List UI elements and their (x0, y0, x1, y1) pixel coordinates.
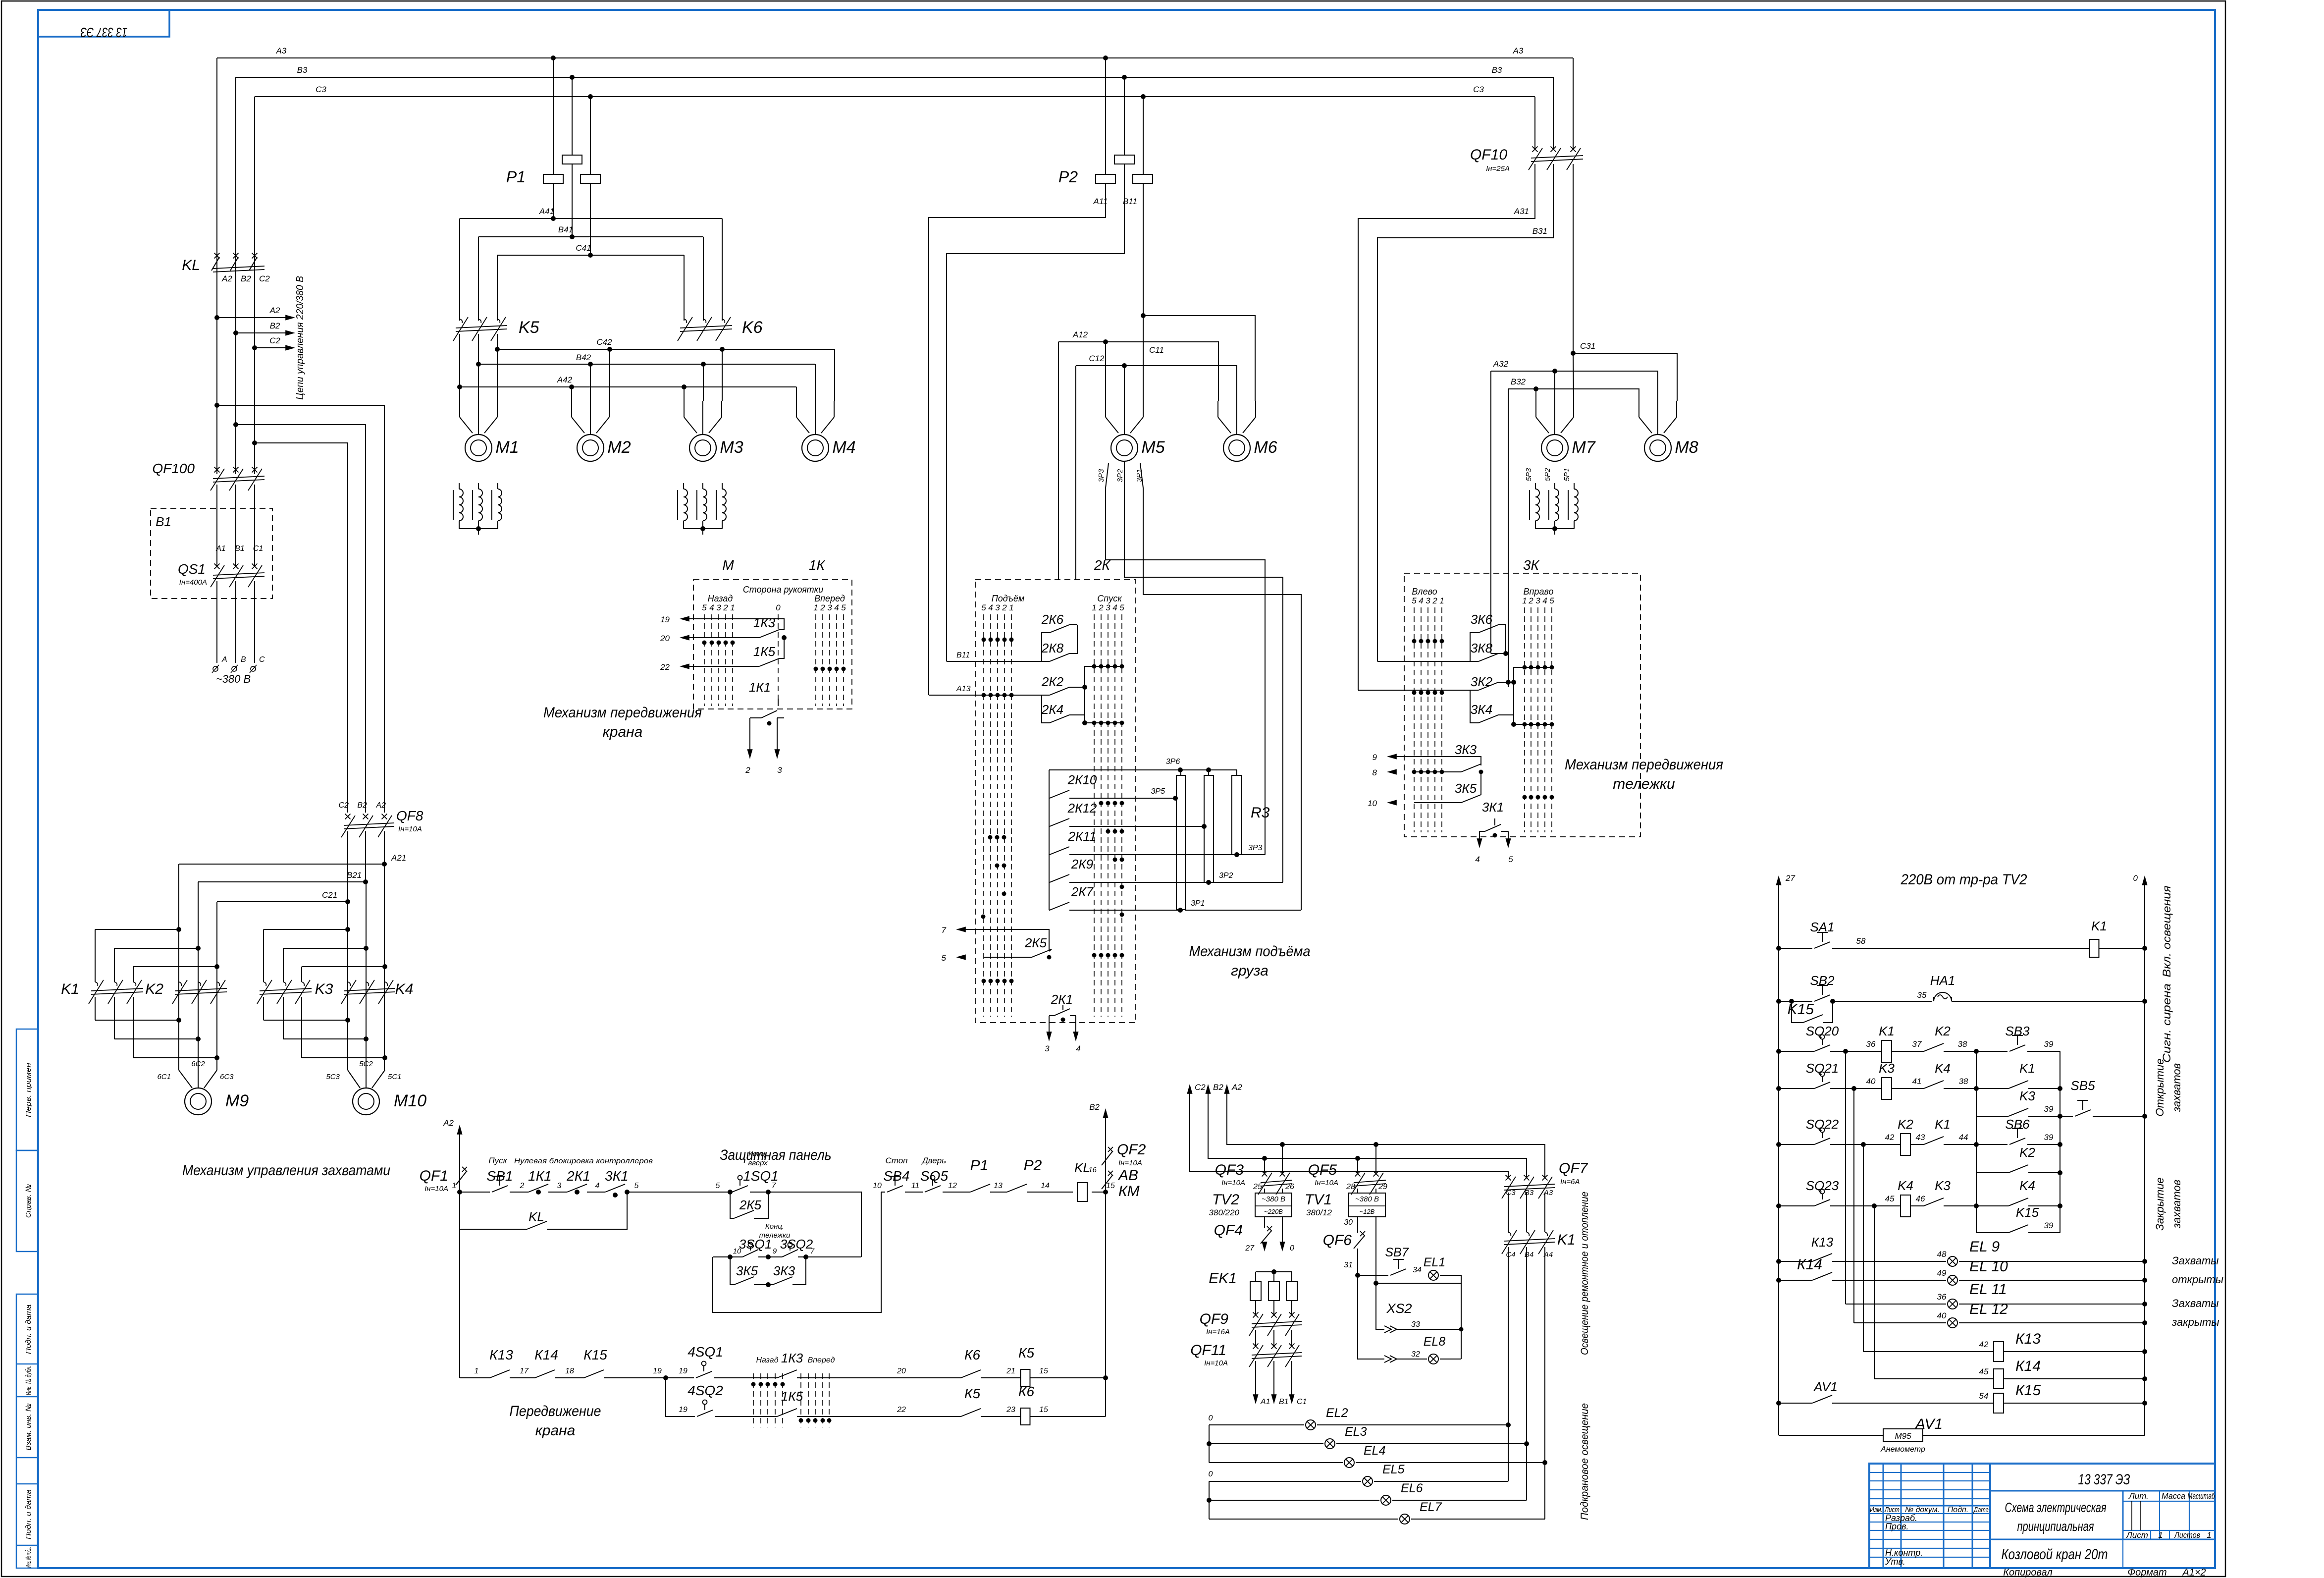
wire K3 top links (264, 929, 348, 930)
svg-text:A: A (221, 655, 227, 664)
svg-text:~380 В: ~380 В (216, 673, 251, 685)
svg-text:K4: K4 (395, 981, 414, 997)
lamp row EL4 (1209, 1462, 1343, 1463)
svg-text:Козловой кран 20т: Козловой кран 20т (2002, 1546, 2108, 1563)
motor M7 (1541, 435, 1568, 461)
controller M contact columns Назад (704, 614, 705, 706)
lamp row EL3 (1209, 1443, 1323, 1444)
svg-text:C3: C3 (1506, 1189, 1516, 1197)
svg-text:5: 5 (981, 603, 986, 612)
wire C31 down to motors (1573, 164, 1574, 353)
svg-text:2К4: 2К4 (1041, 702, 1063, 717)
wire B11 to 2K box (947, 164, 1124, 661)
parallel box verticals (1976, 1051, 1977, 1233)
svg-text:1: 1 (1009, 603, 1013, 612)
svg-text:5Р1: 5Р1 (1563, 468, 1571, 482)
contacts 2К10 2К12 2К11 2К9 2К7 rotor steps (1049, 770, 1050, 910)
svg-text:23: 23 (1006, 1406, 1015, 1414)
svg-text:открыты: открыты (2172, 1273, 2223, 1286)
wire TV1 right secondary (1376, 1217, 1461, 1283)
svg-text:1: 1 (1092, 603, 1096, 612)
svg-text:B1: B1 (1279, 1398, 1289, 1406)
contactor K1 (95, 982, 98, 986)
svg-text:EL4: EL4 (1364, 1444, 1385, 1458)
coil KL (1077, 1183, 1087, 1201)
svg-text:39: 39 (2044, 1104, 2054, 1114)
svg-text:A12: A12 (1072, 330, 1088, 339)
svg-text:3К5: 3К5 (736, 1263, 758, 1278)
wire K2 pole C vertical (216, 902, 217, 1070)
pushbutton SB6 (2017, 1129, 2018, 1138)
svg-text:3Р3: 3Р3 (1097, 469, 1106, 482)
wire A21 row (384, 831, 385, 864)
svg-text:A3: A3 (1513, 46, 1524, 55)
title block columns (1883, 1464, 1884, 1568)
rotor resistor bank under M3 (683, 483, 684, 489)
svg-text:~220В: ~220В (1264, 1208, 1283, 1215)
svg-text:2: 2 (745, 765, 750, 775)
svg-text:B: B (241, 655, 246, 664)
svg-text:17: 17 (520, 1367, 529, 1375)
svg-text:3К2: 3К2 (1471, 674, 1493, 689)
svg-text:АВ: АВ (1117, 1167, 1138, 1184)
wire K3 bottom links (263, 997, 264, 1020)
svg-text:5С3: 5С3 (326, 1073, 340, 1081)
svg-text:SB4: SB4 (884, 1168, 910, 1184)
svg-text:K1: K1 (1557, 1232, 1576, 1248)
svg-text:М6: М6 (1254, 438, 1277, 457)
svg-text:EL 11: EL 11 (1969, 1281, 2007, 1298)
svg-text:3К3: 3К3 (773, 1263, 795, 1278)
svg-text:Подп. и дата: Подп. и дата (24, 1305, 33, 1354)
svg-text:15: 15 (1039, 1406, 1048, 1414)
svg-text:38: 38 (1959, 1077, 1968, 1086)
top-left stamp box (38, 10, 169, 37)
svg-text:2: 2 (820, 603, 825, 612)
transformer TV2 (1264, 1189, 1265, 1193)
svg-text:28: 28 (1346, 1183, 1355, 1191)
svg-text:K15: K15 (2016, 1205, 2039, 1220)
svg-text:13 337 ЭЗ: 13 337 ЭЗ (81, 25, 128, 40)
svg-text:3: 3 (777, 765, 782, 775)
svg-text:B32: B32 (1511, 377, 1526, 386)
bus 0 right rail (2142, 875, 2147, 885)
svg-text:AV1: AV1 (1914, 1416, 1943, 1432)
svg-text:QF2: QF2 (1117, 1142, 1146, 1158)
svg-text:2К1: 2К1 (566, 1168, 590, 1184)
svg-text:AV1: AV1 (1813, 1379, 1838, 1394)
limit switch SQ5 Дверь (931, 1176, 935, 1180)
svg-text:B42: B42 (576, 353, 591, 362)
svg-text:K2: K2 (1898, 1117, 1913, 1132)
contactor K2 (179, 982, 181, 986)
wire A31 loop to 3K box (1358, 164, 1535, 690)
svg-text:SQ22: SQ22 (1806, 1117, 1839, 1132)
wire phase B down from bus B3 (235, 77, 236, 474)
svg-text:XS2: XS2 (1386, 1301, 1412, 1316)
limit switch 4SQ1 (666, 1377, 694, 1378)
svg-text:30: 30 (1344, 1218, 1353, 1227)
svg-text:Iн=400А: Iн=400А (179, 578, 207, 587)
dropper wires to coils (1845, 1051, 1846, 1304)
svg-text:1: 1 (2207, 1530, 2211, 1540)
wire C11 row to M6 (1141, 313, 1146, 318)
svg-text:SB7: SB7 (1385, 1246, 1409, 1259)
svg-text:Пров.: Пров. (1885, 1522, 1908, 1531)
svg-text:A2: A2 (443, 1118, 454, 1128)
svg-text:Масштаб: Масштаб (2188, 1491, 2216, 1501)
wire A12 row (1058, 342, 1218, 401)
svg-text:К14: К14 (534, 1347, 558, 1362)
svg-text:9: 9 (1373, 753, 1377, 762)
contactor K4 (348, 982, 350, 986)
contact К13 (490, 1370, 510, 1378)
contact 1К3 (684, 637, 759, 638)
svg-text:44: 44 (1959, 1133, 1968, 1142)
svg-text:QS1: QS1 (178, 561, 206, 577)
svg-text:Назад: Назад (756, 1356, 778, 1364)
controller 3K columns Влево (1414, 607, 1415, 832)
svg-text:2К12: 2К12 (1067, 801, 1097, 816)
motor M9 (185, 1088, 211, 1115)
svg-text:3Р6: 3Р6 (1166, 758, 1180, 766)
resistor R3 column 3 (1232, 775, 1241, 855)
title block frame (1869, 1464, 2215, 1568)
svg-text:20: 20 (897, 1367, 906, 1375)
svg-text:K3: K3 (1879, 1061, 1895, 1076)
svg-text:4SQ2: 4SQ2 (687, 1383, 723, 1398)
svg-text:10: 10 (1368, 799, 1377, 808)
svg-text:Захваты: Захваты (2172, 1254, 2219, 1267)
wire 3K outputs up (1490, 371, 1491, 653)
controller M contact columns Вперед (815, 614, 816, 706)
wire M3 leads from K6 (684, 387, 685, 401)
svg-text:36: 36 (1937, 1292, 1947, 1302)
svg-text:~12В: ~12В (1360, 1208, 1375, 1215)
svg-text:P2: P2 (1024, 1157, 1042, 1174)
wire K4 pole A vertical (347, 902, 348, 1070)
svg-text:A2: A2 (375, 801, 386, 810)
svg-text:Справ. №: Справ. № (24, 1184, 33, 1218)
svg-text:К13: К13 (489, 1347, 513, 1362)
wire feeders down to 2K box (1058, 342, 1059, 580)
wire C2 run (1190, 1090, 1508, 1177)
svg-text:22: 22 (897, 1406, 906, 1414)
contact K15 parallel row (1976, 1232, 2008, 1233)
svg-text:SA1: SA1 (1810, 920, 1834, 934)
svg-text:2К11: 2К11 (1068, 829, 1097, 844)
svg-text:3К8: 3К8 (1471, 641, 1493, 655)
svg-text:B2: B2 (1089, 1102, 1100, 1112)
svg-text:33: 33 (1411, 1320, 1420, 1329)
svg-text:2К2: 2К2 (1041, 674, 1064, 689)
svg-text:Механизм управления захватами: Механизм управления захватами (182, 1162, 390, 1179)
motor M10 (353, 1088, 379, 1115)
svg-text:8: 8 (1373, 768, 1377, 777)
contact K1 parallel (1976, 1088, 2008, 1089)
svg-text:10: 10 (733, 1247, 741, 1255)
svg-text:B2: B2 (357, 801, 367, 810)
svg-text:36: 36 (1866, 1039, 1876, 1049)
wire M2 leads (571, 387, 572, 401)
svg-text:Передвижение: Передвижение (510, 1403, 601, 1419)
svg-text:13: 13 (994, 1182, 1003, 1190)
svg-text:4: 4 (1076, 1044, 1080, 1053)
thermal relay P2 lead A11 (1103, 55, 1108, 60)
svg-text:A31: A31 (1514, 207, 1529, 216)
svg-text:Механизм передвижения: Механизм передвижения (1565, 757, 1723, 773)
svg-text:3: 3 (1045, 1044, 1050, 1053)
wire C41 row (497, 255, 684, 256)
rung SQ20 (1776, 1049, 1781, 1054)
svg-text:Копировал: Копировал (2003, 1567, 2052, 1578)
wire B2 run (1208, 1090, 1527, 1177)
wire A2 run (1227, 1090, 1545, 1177)
svg-text:Взам. инв. №: Взам. инв. № (24, 1404, 33, 1451)
svg-text:Формат: Формат (2127, 1567, 2166, 1578)
svg-text:K6: K6 (742, 318, 763, 337)
svg-text:3: 3 (827, 603, 832, 612)
svg-text:K3: K3 (315, 981, 333, 997)
svg-text:4: 4 (1542, 596, 1547, 605)
svg-text:груза: груза (1231, 963, 1268, 979)
svg-text:KL: KL (1074, 1160, 1090, 1175)
svg-text:2: 2 (1098, 603, 1104, 612)
svg-text:6С3: 6С3 (220, 1073, 234, 1081)
svg-text:9: 9 (773, 1247, 777, 1255)
svg-text:Лист: Лист (2126, 1530, 2148, 1540)
bypass contacts 3К5 3К3 (730, 1257, 734, 1285)
svg-text:3К4: 3К4 (1471, 702, 1492, 717)
svg-text:21: 21 (1006, 1367, 1015, 1375)
svg-text:Iн=10А: Iн=10А (1204, 1359, 1228, 1367)
svg-text:35: 35 (1917, 990, 1927, 1000)
wire bus A3 (217, 57, 1573, 58)
svg-text:0: 0 (776, 603, 781, 612)
svg-text:C2: C2 (259, 274, 270, 283)
svg-text:QF9: QF9 (1200, 1311, 1229, 1327)
wire 2К9 row to 3Р2 (1069, 882, 1209, 883)
svg-text:K3: K3 (1935, 1178, 1951, 1193)
svg-text:EK1: EK1 (1209, 1270, 1237, 1287)
svg-text:M10: M10 (394, 1091, 426, 1110)
svg-text:Захваты: Захваты (2172, 1297, 2219, 1309)
contact K2 parallel row (1976, 1172, 2008, 1173)
svg-text:QF100: QF100 (152, 461, 195, 476)
svg-text:4: 4 (709, 603, 714, 612)
svg-text:18: 18 (565, 1367, 574, 1375)
wire B42 row (478, 334, 479, 364)
svg-text:26: 26 (1285, 1183, 1294, 1191)
svg-text:1: 1 (813, 603, 818, 612)
svg-text:К5: К5 (1018, 1345, 1035, 1360)
svg-text:A42: A42 (557, 375, 573, 384)
svg-text:M8: M8 (1675, 438, 1698, 457)
svg-text:Конц.: Конц. (765, 1222, 784, 1231)
svg-text:5Р2: 5Р2 (1543, 468, 1552, 481)
svg-text:B1: B1 (235, 544, 245, 553)
svg-text:крана: крана (535, 1422, 576, 1439)
breaker QF3 (1280, 1142, 1285, 1147)
contact P1 (970, 1184, 990, 1192)
node dots Подъём rows (982, 638, 986, 642)
wire A41 row (460, 218, 722, 219)
arrows A1 B1 C1 (1255, 1361, 1256, 1397)
svg-text:2К10: 2К10 (1067, 772, 1097, 787)
svg-text:K1: K1 (2019, 1061, 2035, 1076)
svg-text:43: 43 (1916, 1133, 1925, 1142)
rung SB2 - HA1 siren (1776, 999, 1781, 1004)
svg-text:К13: К13 (1811, 1235, 1834, 1250)
wire 19 arrow (704, 618, 762, 619)
wire branch A2 to QF8 column (214, 403, 219, 408)
svg-text:2К5: 2К5 (739, 1197, 762, 1212)
rung coil K13 (1863, 1351, 1994, 1352)
svg-text:Изм.: Изм. (1870, 1506, 1883, 1514)
pushbutton SB5 (2060, 1116, 2073, 1117)
svg-text:5Р3: 5Р3 (1525, 468, 1533, 481)
svg-text:11: 11 (911, 1182, 920, 1190)
svg-text:Iн=25А: Iн=25А (1486, 164, 1510, 173)
supply terminals ~380V (213, 666, 218, 671)
svg-text:К6: К6 (1018, 1384, 1035, 1399)
svg-text:R3: R3 (1251, 805, 1270, 821)
svg-text:Утв.: Утв. (1885, 1557, 1905, 1567)
svg-text:Сигн. сирена: Сигн. сирена (2161, 983, 2173, 1063)
svg-text:15: 15 (1039, 1367, 1048, 1375)
svg-text:29: 29 (1378, 1183, 1387, 1191)
svg-text:3Р2: 3Р2 (1116, 469, 1124, 482)
motor M1 (465, 435, 492, 461)
breaker QF4 (1264, 1217, 1265, 1228)
svg-text:Iн=10А: Iн=10А (1315, 1179, 1338, 1187)
svg-text:Лит.: Лит. (2128, 1491, 2149, 1501)
wire C12 row (1076, 366, 1237, 401)
svg-text:5: 5 (942, 953, 947, 963)
wire C4 down (1508, 1247, 1509, 1481)
svg-text:58: 58 (1856, 936, 1866, 946)
svg-text:380/220: 380/220 (1209, 1208, 1240, 1217)
wire B32 row (1508, 389, 1639, 401)
svg-text:A41: A41 (539, 207, 554, 216)
svg-text:C31: C31 (1580, 341, 1595, 351)
svg-text:Нулевая блокировка контроллеро: Нулевая блокировка контроллеров (514, 1157, 653, 1165)
svg-text:5: 5 (702, 603, 707, 612)
svg-text:5: 5 (841, 603, 846, 612)
svg-text:12: 12 (948, 1182, 957, 1190)
svg-text:B11: B11 (1123, 197, 1137, 206)
svg-text:3: 3 (1106, 603, 1110, 612)
rung SA1 - K1 (1776, 946, 1781, 951)
svg-text:5: 5 (1412, 596, 1417, 605)
svg-text:5: 5 (1119, 603, 1124, 612)
svg-text:45: 45 (1885, 1194, 1895, 1203)
svg-text:Защитная панель: Защитная панель (720, 1147, 832, 1163)
svg-text:32: 32 (1411, 1350, 1420, 1359)
rung EL12 (1854, 1322, 1946, 1323)
svg-text:2: 2 (520, 1182, 525, 1190)
svg-text:C2: C2 (1195, 1083, 1206, 1092)
svg-text:3Р2: 3Р2 (1219, 871, 1233, 880)
svg-text:1: 1 (452, 1182, 457, 1190)
svg-text:EL7: EL7 (1420, 1500, 1442, 1514)
svg-text:39: 39 (2044, 1133, 2054, 1142)
svg-text:20: 20 (660, 634, 670, 643)
svg-text:2К9: 2К9 (1071, 857, 1093, 871)
svg-text:1: 1 (730, 603, 735, 612)
svg-text:принципиальная: принципиальная (2017, 1519, 2094, 1534)
svg-text:4: 4 (1112, 603, 1117, 612)
arrows 27 and 0 to control (1264, 1244, 1265, 1245)
wire A11 to 2K box (929, 183, 1106, 695)
rotor resistor bank under M7 (1535, 483, 1536, 489)
svg-text:3К3: 3К3 (1455, 742, 1477, 757)
svg-text:Влево: Влево (1412, 587, 1437, 597)
svg-text:48: 48 (1937, 1250, 1947, 1259)
svg-text:Iн=10А: Iн=10А (1118, 1159, 1142, 1167)
svg-text:A2: A2 (1231, 1083, 1242, 1092)
coil К5 (1021, 1369, 1030, 1386)
wire K6 pole verticals (722, 218, 723, 321)
svg-text:A2: A2 (221, 274, 232, 283)
svg-text:37: 37 (1912, 1039, 1922, 1049)
svg-text:QF3: QF3 (1215, 1162, 1244, 1178)
svg-text:M2: M2 (607, 438, 631, 457)
breaker QF9 (1253, 1312, 1259, 1318)
contact К15 (584, 1370, 604, 1378)
svg-text:4: 4 (988, 603, 993, 612)
wire phase C down from bus C3 (254, 97, 255, 474)
svg-text:Стоп: Стоп (885, 1156, 908, 1165)
coil K2 (1901, 1134, 1910, 1155)
thermal relay P1 lead A (551, 55, 556, 60)
wire M1 leads from K5 (459, 387, 460, 401)
wire 3Р5 row (1069, 798, 1175, 799)
svg-text:3К1: 3К1 (605, 1168, 629, 1184)
dashed box B1 (151, 508, 272, 599)
feeder arrows C2 B2 A2 lighting (1187, 1084, 1192, 1094)
anemometer AV1 row (1779, 1435, 1883, 1436)
svg-text:Пуск: Пуск (488, 1156, 507, 1165)
svg-text:4: 4 (1419, 596, 1423, 605)
svg-text:C2: C2 (269, 336, 280, 345)
svg-text:A1×2: A1×2 (2182, 1567, 2206, 1578)
wire 2К7 row to 3Р1 (1069, 910, 1180, 911)
svg-text:Iн=10А: Iн=10А (424, 1185, 448, 1193)
motor M2 (577, 435, 604, 461)
svg-text:B2: B2 (1213, 1083, 1223, 1092)
svg-text:B4: B4 (1525, 1251, 1533, 1259)
wire P1-A to A41 (553, 183, 554, 218)
svg-text:HA1: HA1 (1930, 973, 1955, 988)
svg-text:1К5: 1К5 (753, 644, 776, 659)
wire C11 down (1143, 183, 1144, 316)
rung AV1 contact coil K15 (1776, 1401, 1781, 1406)
controller 2K columns Спуск (1094, 614, 1095, 1017)
svg-text:19: 19 (679, 1406, 687, 1414)
svg-text:A32: A32 (1493, 359, 1509, 369)
svg-text:M9: M9 (225, 1091, 249, 1110)
wire K2 pole A vertical (178, 864, 179, 1070)
svg-text:Анемометр: Анемометр (1880, 1445, 1925, 1454)
svg-text:Конц.: Конц. (748, 1150, 767, 1158)
contact K3 parallel row (1976, 1116, 2008, 1117)
svg-text:1: 1 (1522, 596, 1527, 605)
wire branch C2 (252, 440, 257, 445)
contact K4 parallel (1976, 1205, 2008, 1206)
svg-text:38: 38 (1958, 1039, 1967, 1049)
svg-text:1К5: 1К5 (781, 1389, 803, 1404)
